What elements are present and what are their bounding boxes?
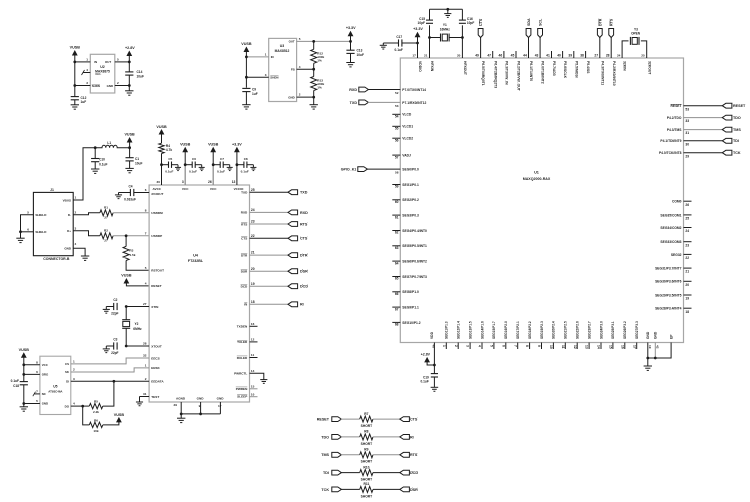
svg-text:1uF: 1uF xyxy=(81,100,87,104)
svg-text:15: 15 xyxy=(251,384,255,388)
wire R8 to RI xyxy=(373,436,400,438)
svg-text:SHORT: SHORT xyxy=(361,442,373,446)
svg-text:DTR: DTR xyxy=(300,254,308,258)
svg-text:RI: RI xyxy=(244,303,247,307)
ground below U4 xyxy=(180,414,182,418)
svg-text:26: 26 xyxy=(208,180,212,184)
svg-text:N.C.: N.C. xyxy=(96,72,102,76)
svg-text:USBDP: USBDP xyxy=(151,234,162,238)
svg-text:PWRCTL: PWRCTL xyxy=(234,372,247,376)
svg-text:+3.3V: +3.3V xyxy=(346,26,356,30)
svg-text:5: 5 xyxy=(36,399,38,403)
junction VDD node xyxy=(433,364,436,367)
svg-text:R10: R10 xyxy=(363,465,369,469)
svg-text:XTOUT: XTOUT xyxy=(151,344,162,348)
ground below C8 xyxy=(250,166,256,168)
svg-text:15: 15 xyxy=(609,345,613,349)
svg-text:4: 4 xyxy=(145,282,147,286)
power net VUSB above R4 xyxy=(161,134,163,143)
svg-text:+3.3V: +3.3V xyxy=(413,27,423,31)
junction DI-R5 xyxy=(113,380,116,383)
wire RESET to R7 xyxy=(341,418,360,420)
svg-text:DSR: DSR xyxy=(241,270,248,274)
crystal Y1 16MHz xyxy=(430,37,441,39)
svg-text:24: 24 xyxy=(251,208,255,212)
svg-text:P6.5/T0/IRQ0T1: P6.5/T0/IRQ0T1 xyxy=(481,61,485,86)
svg-text:22: 22 xyxy=(685,256,689,260)
U1 pin 42 GND wire xyxy=(654,343,656,359)
capacitor C15 10pF xyxy=(426,19,433,21)
junction VUSB-ORG U5 xyxy=(22,373,25,376)
resistor R12 100k 1% xyxy=(313,41,315,49)
capacitor C7 0.1uF xyxy=(213,164,220,166)
crystal Y2 6MHz xyxy=(125,307,127,320)
svg-text:SHORT: SHORT xyxy=(361,494,373,498)
svg-text:0.033uF: 0.033uF xyxy=(124,197,136,201)
svg-text:DTR: DTR xyxy=(241,253,248,257)
svg-text:5: 5 xyxy=(27,210,29,214)
svg-text:U5: U5 xyxy=(53,385,57,389)
svg-text:DO: DO xyxy=(65,404,70,408)
U1 bottom pin 3 SEG13 stub xyxy=(469,343,471,350)
junction SHIELD node xyxy=(19,230,22,233)
svg-text:0.1uF: 0.1uF xyxy=(241,169,249,173)
svg-text:SEG8/P1.0: SEG8/P1.0 xyxy=(402,290,419,294)
svg-text:23: 23 xyxy=(251,220,255,224)
svg-text:P5.4/SS: P5.4/SS xyxy=(586,61,590,74)
svg-text:SEG19/P2.3: SEG19/P2.3 xyxy=(540,321,544,339)
U3 pin 1 IN wire xyxy=(246,56,268,58)
U1 pin EP wire xyxy=(648,343,671,359)
net tag RESET xyxy=(722,103,732,108)
svg-text:20: 20 xyxy=(685,283,689,287)
svg-text:25: 25 xyxy=(251,188,255,192)
svg-text:53: 53 xyxy=(685,107,689,111)
svg-text:VUSB: VUSB xyxy=(180,143,191,147)
svg-text:SEG10/P1.2: SEG10/P1.2 xyxy=(402,321,420,325)
svg-text:16: 16 xyxy=(620,345,624,349)
wire R3 to RSTOUT xyxy=(126,261,149,271)
svg-text:SEG30/P3.6/INT6: SEG30/P3.6/INT6 xyxy=(655,280,682,284)
ground below SHIELD xyxy=(20,232,22,238)
svg-text:C8: C8 xyxy=(244,157,248,161)
svg-text:SLEEP: SLEEP xyxy=(237,395,247,399)
svg-text:P6.3/T3/VW_IN: P6.3/T3/VW_IN xyxy=(505,61,509,85)
svg-text:SEG32: SEG32 xyxy=(671,253,682,257)
svg-text:1uF: 1uF xyxy=(252,92,258,96)
U1 bottom pin 13 SEG23 stub xyxy=(588,343,590,350)
svg-text:2: 2 xyxy=(73,368,75,372)
capacitor C19 0.1uF xyxy=(433,365,435,374)
svg-text:32: 32 xyxy=(143,354,147,358)
ground below C5 xyxy=(175,166,181,168)
wire R10 to DCD xyxy=(373,472,400,474)
wire R7 to CTS xyxy=(373,418,400,420)
svg-text:AGND: AGND xyxy=(176,396,186,400)
U3 pin 3 SHDN wire xyxy=(246,76,268,78)
svg-text:C5: C5 xyxy=(168,157,172,161)
svg-text:RTS: RTS xyxy=(410,453,418,457)
svg-text:RXLED: RXLED xyxy=(237,356,248,360)
svg-text:Y2: Y2 xyxy=(135,322,139,326)
net tag RXD xyxy=(288,210,298,215)
svg-text:CS: CS xyxy=(65,362,69,366)
svg-text:22pF: 22pF xyxy=(111,351,118,355)
svg-text:11: 11 xyxy=(561,345,565,349)
svg-text:2: 2 xyxy=(299,93,301,97)
svg-text:17: 17 xyxy=(632,345,636,349)
svg-text:SEG21/P2.5: SEG21/P2.5 xyxy=(564,321,568,339)
svg-text:3: 3 xyxy=(73,377,75,381)
svg-text:R1: R1 xyxy=(104,206,108,210)
power net VUSB at R6 xyxy=(103,422,119,425)
svg-text:4: 4 xyxy=(73,402,75,406)
svg-text:13: 13 xyxy=(232,180,236,184)
svg-text:RTS: RTS xyxy=(610,18,614,26)
svg-text:C4: C4 xyxy=(128,184,132,188)
junction GND rail xyxy=(199,413,202,416)
svg-text:CTS: CTS xyxy=(479,18,483,26)
svg-text:RSTOUT: RSTOUT xyxy=(151,269,164,273)
U1 bottom pin 2 SEG12 stub xyxy=(457,343,459,350)
power net +2.8V at U1 VDD xyxy=(427,362,434,365)
wire R9 to RTS xyxy=(373,454,400,456)
svg-text:31: 31 xyxy=(143,392,147,396)
svg-text:GND: GND xyxy=(42,402,48,406)
svg-text:SEG29/P3.5/INT5: SEG29/P3.5/INT5 xyxy=(655,293,682,297)
resistor R13 100k 1% xyxy=(313,69,315,76)
svg-text:SEG9/P1.1: SEG9/P1.1 xyxy=(402,306,419,310)
svg-text:30: 30 xyxy=(157,180,161,184)
connector J1 CONNECTOR-B xyxy=(33,192,73,255)
resistor R7 SHORT xyxy=(360,416,373,422)
junction VDDIO supply xyxy=(416,42,419,45)
svg-text:10k: 10k xyxy=(93,429,98,433)
svg-text:VLCD: VLCD xyxy=(402,113,412,117)
svg-text:3V3OUT: 3V3OUT xyxy=(151,192,163,196)
svg-text:TXDEN: TXDEN xyxy=(237,325,248,329)
net tag RTS xyxy=(288,222,298,227)
U1 bottom pin 17 SEG27 stub xyxy=(636,343,638,350)
svg-text:TEST: TEST xyxy=(151,395,159,399)
svg-text:SHDN: SHDN xyxy=(270,76,278,80)
U1 bottom pin 8 SEG18 stub xyxy=(529,343,531,350)
svg-text:30: 30 xyxy=(685,142,689,146)
ground below U2 GND xyxy=(128,86,130,91)
svg-text:8: 8 xyxy=(36,361,38,365)
svg-text:10: 10 xyxy=(549,345,553,349)
svg-text:VCC: VCC xyxy=(210,187,217,191)
svg-text:6: 6 xyxy=(36,370,38,374)
IC U3 MAX8512 xyxy=(269,38,297,101)
svg-text:0.1uF: 0.1uF xyxy=(165,169,173,173)
svg-text:VDD: VDD xyxy=(430,331,434,339)
svg-text:VUSB: VUSB xyxy=(124,133,135,137)
capacitor C13 10uF xyxy=(350,41,352,50)
crystal Y3 OPEN xyxy=(629,37,631,45)
svg-text:3: 3 xyxy=(75,226,77,230)
svg-text:SEG14/P1.6: SEG14/P1.6 xyxy=(480,321,484,339)
junction DO node xyxy=(81,405,84,408)
svg-text:47: 47 xyxy=(487,53,491,57)
svg-text:17: 17 xyxy=(218,404,222,408)
svg-text:54: 54 xyxy=(395,115,399,119)
svg-text:SEG28/P3.4/INT4: SEG28/P3.4/INT4 xyxy=(655,307,682,311)
svg-text:RTS: RTS xyxy=(241,222,247,226)
svg-text:CTS: CTS xyxy=(410,418,418,422)
svg-text:OUT: OUT xyxy=(289,40,295,44)
svg-text:42: 42 xyxy=(656,345,660,349)
svg-text:VUSB: VUSB xyxy=(208,143,219,147)
svg-text:TXD: TXD xyxy=(300,191,308,195)
svg-text:AVCC: AVCC xyxy=(153,187,162,191)
svg-text:SEG11/P1.3: SEG11/P1.3 xyxy=(445,321,449,339)
svg-text:28: 28 xyxy=(143,342,147,346)
svg-text:18: 18 xyxy=(685,310,689,314)
net tag RI xyxy=(288,302,298,307)
svg-text:SEG27/P3.3: SEG27/P3.3 xyxy=(635,321,639,339)
net tag DSR xyxy=(288,269,298,274)
svg-text:10pF: 10pF xyxy=(418,21,425,25)
svg-text:4: 4 xyxy=(299,65,301,69)
svg-text:29: 29 xyxy=(685,154,689,158)
svg-text:7: 7 xyxy=(145,231,147,235)
svg-text:4: 4 xyxy=(75,242,77,246)
svg-text:19: 19 xyxy=(251,282,255,286)
svg-text:RESET: RESET xyxy=(733,104,746,108)
svg-text:0.1uF: 0.1uF xyxy=(420,380,428,384)
svg-text:63: 63 xyxy=(395,246,399,250)
svg-text:SEG31/P3.7/INT7: SEG31/P3.7/INT7 xyxy=(655,267,682,271)
net tag DTR xyxy=(597,29,602,38)
svg-text:SEG13/P1.5: SEG13/P1.5 xyxy=(468,321,472,339)
svg-text:IN: IN xyxy=(94,60,97,64)
svg-text:SEG4/P0.4/INT0: SEG4/P0.4/INT0 xyxy=(402,229,427,233)
svg-text:GND: GND xyxy=(654,331,658,339)
junction HFXIN-Y1 xyxy=(428,36,431,39)
svg-text:21: 21 xyxy=(685,270,689,274)
svg-text:44: 44 xyxy=(523,53,527,57)
svg-text:C3: C3 xyxy=(113,338,117,342)
U1 bottom pin 11 SEG21 stub xyxy=(564,343,566,350)
svg-text:2: 2 xyxy=(75,210,77,214)
capacitor C16 10pF xyxy=(459,19,466,21)
capacitor C12 1uF xyxy=(71,96,79,98)
svg-text:C10: C10 xyxy=(99,158,105,162)
svg-text:RXD: RXD xyxy=(241,211,248,215)
capacitor C2 22pF xyxy=(113,303,115,310)
svg-text:P6.1/T1/INT0: P6.1/T1/INT0 xyxy=(529,61,533,81)
capacitor C17 0.1uF xyxy=(402,42,418,44)
capacitor C6 0.1uF xyxy=(185,164,192,166)
svg-text:CONNECTOR-B: CONNECTOR-B xyxy=(43,257,70,261)
svg-text:TCK: TCK xyxy=(733,151,741,155)
svg-text:RTS: RTS xyxy=(300,222,308,226)
svg-text:0.1uF: 0.1uF xyxy=(395,48,403,52)
svg-text:R7: R7 xyxy=(364,412,368,416)
junction VUSB-IN xyxy=(73,61,76,64)
svg-text:16MHz: 16MHz xyxy=(440,28,451,32)
svg-text:22pF: 22pF xyxy=(111,311,118,315)
svg-text:P7.1/RX0/INT12: P7.1/RX0/INT12 xyxy=(402,101,426,105)
wire crystal top rail xyxy=(430,8,463,10)
IC U5 AT93C46A xyxy=(40,356,71,414)
svg-text:0.1uF: 0.1uF xyxy=(99,163,107,167)
net tag TXD xyxy=(288,190,298,195)
svg-text:DCD: DCD xyxy=(241,285,248,289)
svg-text:57: 57 xyxy=(395,155,399,159)
svg-text:R2: R2 xyxy=(104,229,108,233)
svg-text:DSR: DSR xyxy=(300,270,308,274)
svg-text:27: 27 xyxy=(143,302,147,306)
svg-text:27: 27 xyxy=(594,53,598,57)
wire TDI to R10 xyxy=(341,472,360,474)
svg-text:R8: R8 xyxy=(364,430,368,434)
svg-text:SEG3/P0.3: SEG3/P0.3 xyxy=(402,214,419,218)
svg-text:RXD: RXD xyxy=(349,88,357,92)
svg-text:12: 12 xyxy=(573,345,577,349)
svg-text:RI: RI xyxy=(300,303,304,307)
svg-text:+2.8V: +2.8V xyxy=(421,352,431,356)
svg-text:6: 6 xyxy=(501,345,505,347)
svg-text:SEG26/P3.2: SEG26/P3.2 xyxy=(623,321,627,339)
resistor R2 27 xyxy=(100,233,113,239)
svg-text:26: 26 xyxy=(685,203,689,207)
svg-text:14: 14 xyxy=(597,345,601,349)
net tag RI at jumper xyxy=(400,435,410,440)
svg-text:56: 56 xyxy=(395,138,399,142)
svg-text:DCD: DCD xyxy=(410,471,418,475)
svg-text:33: 33 xyxy=(685,119,689,123)
ground below C1 xyxy=(125,167,133,169)
ground at PWRCTL xyxy=(260,379,267,381)
svg-text:3: 3 xyxy=(466,345,470,347)
svg-text:CTS: CTS xyxy=(300,237,308,241)
svg-text:SEG33/COM3: SEG33/COM3 xyxy=(660,240,681,244)
svg-text:C6: C6 xyxy=(192,157,196,161)
svg-text:C7: C7 xyxy=(220,157,224,161)
svg-text:60: 60 xyxy=(395,200,399,204)
svg-text:0.1uF: 0.1uF xyxy=(11,379,19,383)
svg-text:P6.2/T2B/VW_OUT: P6.2/T2B/VW_OUT xyxy=(517,61,521,92)
svg-text:SEG35/COM1: SEG35/COM1 xyxy=(660,213,681,217)
svg-text:11: 11 xyxy=(251,353,255,357)
svg-text:1.5k: 1.5k xyxy=(129,253,135,257)
wire R11 to DSR xyxy=(373,488,400,490)
svg-text:SCL: SCL xyxy=(539,18,543,26)
svg-text:C17: C17 xyxy=(396,35,402,39)
svg-text:Y1: Y1 xyxy=(443,23,447,27)
capacitor C18 0.1uF xyxy=(20,381,28,383)
svg-text:3: 3 xyxy=(265,73,267,77)
U1 bottom pin 10 SEG20 stub xyxy=(552,343,554,350)
net tag RTS at jumper xyxy=(400,452,410,457)
svg-text:SEG7/P0.7/INT3: SEG7/P0.7/INT3 xyxy=(402,275,427,279)
svg-text:P4.2/TDO: P4.2/TDO xyxy=(667,116,682,120)
junction OUT node xyxy=(128,61,131,64)
svg-text:2: 2 xyxy=(454,345,458,347)
svg-text:SEG23/P2.7: SEG23/P2.7 xyxy=(587,321,591,339)
svg-text:P7.0/TX0/INT14: P7.0/TX0/INT14 xyxy=(402,88,426,92)
svg-text:19: 19 xyxy=(685,297,689,301)
svg-text:OPEN: OPEN xyxy=(631,31,641,35)
resistor R4 4.7k xyxy=(159,143,164,153)
svg-text:21: 21 xyxy=(424,53,428,57)
svg-text:SEG24/P3.0: SEG24/P3.0 xyxy=(599,321,603,339)
junction VUSB-SHDN xyxy=(73,84,76,87)
svg-text:SDA: SDA xyxy=(527,18,531,26)
svg-text:R5: R5 xyxy=(94,400,98,404)
junction OUT-R12 xyxy=(312,40,315,43)
svg-text:27: 27 xyxy=(104,216,108,220)
svg-text:C2: C2 xyxy=(113,298,117,302)
svg-text:32KIN: 32KIN xyxy=(623,61,627,71)
U3 pin 5 OUT wire xyxy=(297,40,351,42)
junction GND node xyxy=(128,84,131,87)
svg-text:ORG: ORG xyxy=(42,373,49,377)
svg-text:TXD: TXD xyxy=(241,191,248,195)
svg-text:SEG25/P3.1: SEG25/P3.1 xyxy=(611,321,615,339)
svg-text:VLCD1: VLCD1 xyxy=(402,125,413,129)
svg-text:31: 31 xyxy=(685,131,689,135)
svg-text:U1: U1 xyxy=(534,171,539,175)
svg-text:27: 27 xyxy=(104,239,108,243)
ground below U3 GND xyxy=(313,97,315,105)
svg-text:10uF: 10uF xyxy=(135,162,142,166)
junction GND42 xyxy=(654,357,657,360)
junction GND19 xyxy=(646,357,649,360)
svg-text:13: 13 xyxy=(585,345,589,349)
svg-text:U2: U2 xyxy=(100,65,105,69)
svg-text:20: 20 xyxy=(457,53,461,57)
svg-text:J1: J1 xyxy=(50,188,54,192)
resistor R6 10k xyxy=(83,406,90,425)
svg-text:GND: GND xyxy=(107,84,113,88)
svg-text:TDO: TDO xyxy=(321,435,329,439)
svg-text:28: 28 xyxy=(606,53,610,57)
svg-text:19: 19 xyxy=(648,345,652,349)
svg-text:9: 9 xyxy=(537,345,541,347)
svg-text:C1: C1 xyxy=(135,157,139,161)
svg-text:RESET: RESET xyxy=(151,284,161,288)
svg-text:4.7k: 4.7k xyxy=(166,148,172,152)
svg-text:RI: RI xyxy=(410,435,414,439)
net tag CTS at jumper xyxy=(400,417,410,422)
svg-text:8: 8 xyxy=(145,208,147,212)
svg-text:0.1uF: 0.1uF xyxy=(217,169,225,173)
svg-text:D+: D+ xyxy=(67,229,71,233)
svg-text:66: 66 xyxy=(395,292,399,296)
svg-text:10uF: 10uF xyxy=(137,74,144,78)
junction VUSB-VCC U5 xyxy=(22,363,25,366)
svg-text:43: 43 xyxy=(535,53,539,57)
svg-text:68: 68 xyxy=(395,323,399,327)
svg-text:U3: U3 xyxy=(280,44,285,48)
svg-text:USBDM: USBDM xyxy=(151,211,163,215)
svg-text:17: 17 xyxy=(412,53,416,57)
svg-text:5: 5 xyxy=(299,37,301,41)
ground left of C3 xyxy=(105,346,107,349)
svg-text:VUSB: VUSB xyxy=(121,274,132,278)
svg-text:P4.0/TCK/INT8: P4.0/TCK/INT8 xyxy=(659,151,682,155)
svg-text:25: 25 xyxy=(685,217,689,221)
svg-text:TDI: TDI xyxy=(323,471,329,475)
svg-text:MAX8512: MAX8512 xyxy=(275,49,290,53)
U2 pin 1 IN wire xyxy=(75,61,91,63)
resistor R10 SHORT xyxy=(360,470,373,476)
svg-text:16: 16 xyxy=(251,322,255,326)
net tag DSR at jumper xyxy=(400,487,410,492)
